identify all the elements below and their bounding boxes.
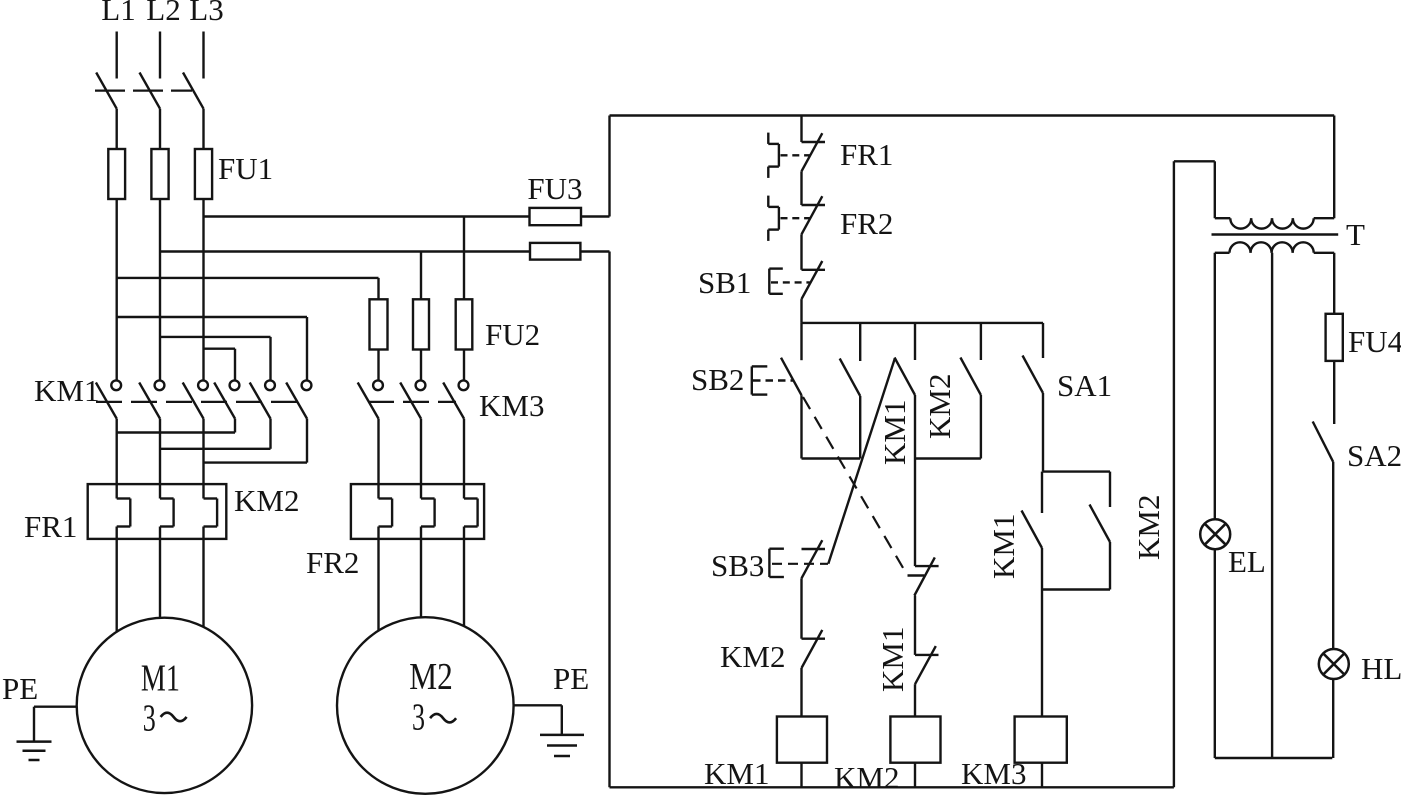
fuse FU2 element 1 [370,299,388,349]
wire SB3 NC to KM2 NC [800,578,802,638]
wire KM3 to FR2 [379,419,465,499]
wire drop to FU2 right [463,217,465,300]
contactor KM2 main contact 5 [250,380,275,418]
transformer T label [1346,217,1365,252]
wire FU2 to KM3 contacts [379,350,465,381]
wire L3 top [202,32,204,79]
svg-text:SB3: SB3 [711,548,764,583]
svg-text:SA1: SA1 [1057,368,1112,403]
wire M2 to PE [514,705,562,735]
contactor KM1 main contact 1 [96,380,121,418]
wire L3 below FU1 [202,199,204,381]
wire top rail to FR1 contact [800,116,802,143]
svg-text:KM1: KM1 [34,373,99,408]
wire control left rail upper [608,116,610,217]
svg-text:L3: L3 [189,0,223,27]
wire lamp bottom rail [1215,757,1333,759]
wire L1 contacts to FR1 [115,419,117,499]
wire L1 top [115,32,117,79]
svg-text:PE: PE [553,661,589,696]
wire KM1 aux stub [859,323,861,361]
wire control bus [802,322,1044,324]
contactor KM3 label [479,388,544,423]
node L3 label [189,0,223,27]
contactor KM1 aux 2 contact [1022,511,1043,549]
svg-text:KM1: KM1 [877,400,912,465]
wire L1 switch to FU1 [115,109,117,149]
wire SB3 NO stub [914,323,916,360]
svg-text:FU3: FU3 [527,171,582,206]
wire SA2 to HL [1332,462,1334,649]
svg-text:PE: PE [2,671,38,706]
wire FR2 to motor M2 [379,527,465,631]
contactor KM2 label [234,483,299,518]
thermal relay FR1 label [24,509,77,544]
contactor KM1 interlock label [875,627,910,692]
thermal relay FR2 heaters [351,484,484,539]
contactor KM1 aux 2 label [986,514,1021,579]
contactor KM1 main contact 3 [183,380,208,418]
svg-text:KM1: KM1 [704,756,769,791]
motor M1 phase label [143,698,187,740]
wire control left rail lower [608,252,610,788]
motor M2 phase label [412,697,456,739]
contactor KM3 contact 1 [358,380,383,418]
wire L2 to KM2 contact 5 [160,337,271,381]
wire drop to FU2 middle [420,252,422,300]
wire coil KM3 to bottom rail [1041,763,1043,788]
thermal relay FR2 actuator [768,196,809,241]
svg-text:FR1: FR1 [840,137,893,172]
node PE M2 label [553,661,589,696]
svg-text:FR2: FR2 [840,206,893,241]
contactor KM1 aux 2 stub [1041,472,1043,513]
node L1 label [101,0,135,27]
motor M2 [337,617,514,794]
wire SB2 stub [800,323,802,360]
svg-text:SB1: SB1 [698,265,751,300]
svg-text:FU4: FU4 [1348,324,1401,359]
fuse FU3 element 2 [530,243,580,260]
svg-text:SA2: SA2 [1347,438,1401,473]
wire SB2 to node A [800,395,802,458]
coil KM3 [1015,717,1067,763]
wire L1 below FU1 [115,199,117,381]
svg-text:KM2: KM2 [720,639,785,674]
transformer T primary winding [1215,218,1334,228]
svg-text:KM2: KM2 [234,483,299,518]
thermal contact FR1 [802,133,826,171]
wire KM2 contact 5 output [160,419,271,449]
contactor KM1 aux contact [840,359,861,397]
contactor KM2 aux 2 label [1131,495,1166,560]
transformer T core [1212,233,1339,235]
wire secondary right to FU4 [1333,253,1335,314]
thermal relay FR1 actuator [768,133,809,178]
svg-text:KM1: KM1 [875,627,910,692]
wire node B [915,457,981,459]
wire parallel pair bottom [1042,588,1110,590]
svg-text:T: T [1346,217,1365,252]
contactor KM2 aux 2 contact [1090,505,1111,543]
wire L3 switch to FU1 [202,109,204,149]
pushbutton SB1 label [698,265,751,300]
svg-text:3: 3 [412,697,425,739]
node L2 label [146,0,180,27]
contactor KM1 aux label [877,400,912,465]
wire L2 top [159,32,161,79]
lamp HL label [1361,651,1401,686]
wire pair to coil KM3 [1041,590,1043,717]
contactor KM2 aux contact [960,358,981,396]
node PE M1 label [2,671,38,706]
fuse FU3 label [527,171,582,206]
coil KM2 label [834,760,899,795]
disconnect switch QS linkage [95,89,192,91]
svg-text:EL: EL [1228,544,1266,579]
wire FR1 to FR2 contact [800,171,802,205]
pushbutton SB1 actuator [769,269,810,294]
ground PE M1 [17,742,52,760]
switch SA2 label [1347,438,1401,473]
wire control box top rail [610,114,1335,116]
contactor KM3 contact 3 [443,380,468,418]
contactor KM3 linkage [368,401,456,403]
svg-text:HL: HL [1361,651,1401,686]
fuse FU1 element 2 [151,149,168,199]
wire control right rail [1333,116,1335,219]
wire KM2 aux lower [980,395,982,459]
wire SB3 NO lower [914,395,916,566]
pushbutton SB2 NC contact [914,557,938,595]
thermal contact FR2 [802,196,826,234]
fuse FU2 label [485,317,540,352]
switch SA1 label [1057,368,1112,403]
svg-text:SB2: SB2 [691,362,744,397]
contactor KM2 aux label [922,374,957,439]
motor M1 label [141,658,180,700]
wire FU4 to SA2 [1333,361,1335,424]
fuse FU4 [1326,314,1343,361]
svg-text:L2: L2 [146,0,180,27]
wire L3 to FU3 upper [204,215,610,217]
svg-text:KM1: KM1 [986,514,1021,579]
wire KM1 aux 2 lower [1041,548,1043,590]
linkage SB2 to its NC contact [803,397,924,576]
contactor KM3 contact 2 [400,380,425,418]
wire primary left jog [1174,161,1215,787]
wire M1 to PE [34,707,77,742]
fuse FU1 element 1 [108,149,125,199]
wire HL to bottom [1332,679,1334,758]
contactor KM2 main contact 6 [286,380,311,418]
pushbutton SB2 actuator [752,366,794,394]
thermal relay FR2 label [306,545,359,580]
wire SB1 to bus [800,299,802,323]
wire L2 to FU3 lower [160,250,610,252]
wire KM1 NC to coil KM2 [914,684,916,716]
fuse FU2 element 3 [456,299,473,349]
svg-text:L1: L1 [101,0,135,27]
linkage SB3 to its NO contact [772,358,895,564]
fuse FU1 label [218,151,273,186]
svg-text:KM2: KM2 [834,760,899,795]
coil KM1 [777,717,827,763]
pushbutton SB2 label [691,362,744,397]
lamp EL [1200,519,1230,549]
contactor KM2 main contact 4 [214,380,239,418]
contactor KM2 aux 2 stub [1109,472,1111,507]
svg-text:KM2: KM2 [922,374,957,439]
pushbutton SB3 actuator [769,549,784,577]
wire node A [802,457,861,459]
svg-text:3: 3 [143,698,156,740]
wire coil KM1 to bottom rail [800,763,802,788]
switch SA2 contact [1313,422,1334,462]
contactor KM1-KM2 linkage [96,401,300,403]
wire parallel pair top [1043,470,1110,472]
ground PE M2 [540,735,584,756]
svg-text:KM3: KM3 [479,388,544,423]
pushbutton SB3 NO contact [895,358,916,396]
thermal contact FR1 label [840,137,893,172]
wire L2 switch to FU1 [159,109,161,149]
fuse FU1 element 3 [195,149,212,199]
fuse FU2 element 2 [413,299,429,349]
disconnect switch QS pole 2 blade [140,73,161,109]
transformer T secondary winding [1215,242,1334,253]
wire control bottom rail [610,786,1174,788]
svg-text:FU1: FU1 [218,151,273,186]
switch SA1 contact [1023,356,1044,394]
coil KM3 label [961,756,1026,791]
wire EL to bottom [1214,549,1216,758]
wire L2 below FU1 [159,199,161,381]
wire FR2 to SB1 [800,234,802,269]
contactor KM1 interlock contact [915,646,939,684]
pushbutton SB1 contact [802,261,826,299]
wire L1 to FU2 [117,278,379,299]
lamp HL [1319,649,1349,679]
motor M1 [77,618,252,793]
disconnect switch QS pole 1 blade [96,73,117,109]
wire KM1 aux lower [859,396,861,459]
pushbutton SB2 contact [781,358,802,396]
svg-text:FR2: FR2 [306,545,359,580]
svg-text:M1: M1 [141,658,180,700]
wire SA1 lower [1042,393,1044,472]
contactor KM1 main contact 2 [139,380,164,418]
wire secondary center tap [1271,253,1273,758]
fuse FU3 element 1 [530,208,582,225]
contactor KM2 interlock contact [802,630,826,668]
pushbutton SB3 NC contact [802,540,826,578]
svg-text:KM3: KM3 [961,756,1026,791]
disconnect switch QS pole 3 blade [183,73,204,109]
switch SA1 stub [1042,323,1044,358]
wire L3 to KM2 contact 4 [204,349,236,381]
lamp EL label [1228,544,1266,579]
motor M2 label [409,656,453,698]
wire KM2 aux 2 lower [1109,542,1111,590]
coil KM2 [890,717,940,763]
wire L3 contacts to FR1 [202,419,204,499]
wire L1 to KM2 contact 6 [117,317,307,381]
wire KM2 aux stub [980,323,982,360]
pushbutton SB3 label [711,548,764,583]
wire secondary left to EL [1214,253,1216,519]
wire KM2 contact 6 output [204,419,308,463]
wire SB2 NC to KM1 NC [914,596,916,655]
svg-text:FR1: FR1 [24,509,77,544]
fuse FU4 label [1348,324,1401,359]
svg-text:KM2: KM2 [1131,495,1166,560]
wire KM2 contact 4 output [117,419,235,433]
thermal contact FR2 label [840,206,893,241]
wire KM2 NC to coil KM1 [800,668,802,717]
wire L2 contacts to FR1 [159,419,161,499]
wire coil KM2 to bottom rail [914,763,916,788]
coil KM1 label [704,756,769,791]
contactor KM2 interlock label [720,639,785,674]
thermal relay FR1 heaters [88,484,227,539]
wire L1 FR1 to motor M1 [115,527,117,632]
contactor KM1 label [34,373,99,408]
wire L3 FR1 to motor M1 [202,527,204,627]
svg-text:FU2: FU2 [485,317,540,352]
wire L2 FR1 to motor M1 [159,527,161,618]
svg-text:M2: M2 [409,656,453,698]
